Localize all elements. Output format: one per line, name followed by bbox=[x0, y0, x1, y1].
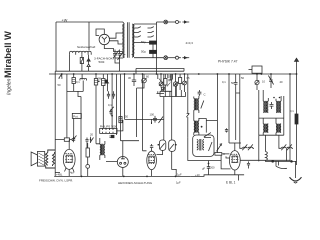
wire switch leg to EBL bottom bbox=[188, 137, 221, 160]
svg-text:50µ: 50µ bbox=[141, 40, 146, 44]
wire right verticals bbox=[290, 74, 297, 165]
svg-text:50: 50 bbox=[58, 83, 61, 87]
svg-text:1µF: 1µF bbox=[177, 173, 182, 177]
wire can2 bottom to bus bbox=[157, 150, 177, 176]
black cap blob bbox=[110, 135, 115, 138]
wire left vertical from +W corner down bbox=[55, 22, 57, 71]
osc trimmer 3 bbox=[183, 74, 187, 92]
knot extra drops bbox=[157, 74, 173, 94]
wire x151.5 from y119 down bbox=[151, 122, 153, 124]
switch mains arrow bbox=[87, 55, 90, 71]
svg-text:HEXODEN-SCHALTUNG: HEXODEN-SCHALTUNG bbox=[118, 181, 153, 185]
svg-text:30: 30 bbox=[128, 76, 131, 80]
svg-text:50µ: 50µ bbox=[141, 50, 146, 54]
wire x229 vertical to tube bbox=[228, 74, 230, 143]
osc transformer upper pair bbox=[194, 96, 204, 121]
trimmer arrow right of box bbox=[217, 144, 222, 152]
comps right of grid bbox=[85, 137, 93, 148]
junction dot x98.8 bbox=[98, 81, 100, 83]
svg-text:1µF: 1µF bbox=[176, 181, 181, 185]
output transformer winding 1 bbox=[46, 150, 56, 168]
coil pair with arrows right of EBL top bbox=[241, 144, 254, 150]
svg-text:4×0,3: 4×0,3 bbox=[186, 41, 194, 45]
svg-text:+10: +10 bbox=[195, 173, 200, 177]
svg-text:40: 40 bbox=[280, 80, 283, 84]
switch diagonal below osc bbox=[204, 133, 211, 138]
trimmer ant x257 bbox=[255, 74, 259, 90]
osc transformer lower pair bbox=[194, 118, 207, 135]
filter cap C50a bbox=[150, 41, 157, 44]
wire x206.3 down bbox=[205, 118, 207, 132]
wire rectifier anode loop bbox=[96, 29, 104, 36]
junction dots bottom bbox=[81, 160, 293, 177]
resistor R4 bbox=[102, 74, 105, 128]
wave switch label + box bbox=[100, 125, 118, 134]
knot tiny marks bbox=[159, 79, 172, 87]
main bus y74 bbox=[49, 73, 297, 75]
junction dots IF top bbox=[273, 97, 280, 99]
wire a/b stub bbox=[59, 74, 62, 78]
svg-text:+200: +200 bbox=[209, 166, 216, 170]
output transformer winding 2 bbox=[45, 152, 55, 166]
wire bottom mid step bbox=[190, 175, 233, 177]
wire osc sub-rail y91.3 bbox=[160, 91, 171, 96]
caps between IF coils bbox=[270, 102, 274, 109]
svg-text:25: 25 bbox=[168, 75, 171, 79]
varcap ant x271 bbox=[268, 74, 273, 88]
tube V2 triode bbox=[106, 141, 128, 177]
cap x226 bbox=[225, 128, 228, 132]
osc coil shading bbox=[195, 99, 199, 132]
junction dot bus left bbox=[61, 73, 63, 75]
osc trimmer 2 (dark) bbox=[173, 74, 177, 97]
svg-text:PHYSIK 7.47: PHYSIK 7.47 bbox=[218, 60, 238, 64]
switch right bottom bbox=[276, 161, 287, 168]
power transformer T1 primary bbox=[123, 24, 125, 58]
tube V3 oval bbox=[143, 144, 157, 176]
IF transformer upper pair right bbox=[263, 90, 281, 113]
wire EBL top left bbox=[229, 142, 241, 144]
bottom bus left bbox=[54, 175, 190, 177]
wire mid horizontal y119.4 bbox=[125, 118, 164, 120]
svg-text:Mirabell W: Mirabell W bbox=[2, 31, 13, 78]
wire pot down bbox=[73, 118, 75, 138]
capacitor dark blob x106 bbox=[105, 80, 108, 84]
long verticals mid-left bbox=[108, 74, 172, 151]
svg-text:20: 20 bbox=[90, 133, 93, 137]
svg-text:60: 60 bbox=[146, 75, 149, 79]
wire corner at 136 down bbox=[135, 69, 137, 75]
scattered value labels bbox=[58, 75, 295, 137]
volume pot box bbox=[72, 113, 81, 118]
caps row mid-left bbox=[107, 91, 115, 115]
svg-text:E BL 1: E BL 1 bbox=[226, 180, 236, 184]
resistor R3 bbox=[94, 74, 100, 144]
resistor R6 dark right bbox=[295, 114, 298, 124]
bottom bus stub upper bbox=[55, 171, 60, 173]
arrow through cap bbox=[159, 117, 164, 124]
wire IF bottom y135.2 bbox=[259, 134, 284, 136]
ground symbol bbox=[290, 161, 302, 183]
antenna coupling box bbox=[249, 66, 263, 73]
transformer core bbox=[128, 22, 130, 58]
svg-text:0,1: 0,1 bbox=[222, 80, 226, 84]
tube V1 EBL bbox=[229, 143, 290, 175]
resistor right of tube bbox=[86, 143, 89, 165]
capacitor osc top bbox=[198, 90, 202, 96]
wire box to V2 feed bbox=[117, 120, 123, 131]
cap on y119.4 bbox=[153, 116, 157, 123]
wire shieldbox to EBL with resistor bbox=[215, 153, 231, 169]
svg-text:+4BL: +4BL bbox=[56, 172, 63, 176]
IF can 2 bbox=[169, 140, 177, 151]
coil pair with arrows far right bbox=[280, 144, 293, 150]
wire IF mid rail y118.1 bbox=[259, 117, 284, 119]
rectifier tube V5 bbox=[99, 34, 109, 44]
svg-text:0,1: 0,1 bbox=[290, 109, 294, 113]
svg-text:500i: 500i bbox=[99, 60, 105, 64]
shield box with coils bbox=[193, 135, 214, 156]
IF coil shading bbox=[264, 102, 281, 133]
wire step x239.8 bbox=[236, 74, 241, 148]
svg-text:C: C bbox=[204, 93, 206, 97]
svg-text:50: 50 bbox=[241, 76, 244, 80]
wire x66.9 vertical bbox=[66, 74, 68, 138]
svg-text:50: 50 bbox=[125, 115, 128, 119]
transformer secondary taps bbox=[134, 24, 163, 58]
IF transformer lower pair right bbox=[263, 118, 281, 135]
dial lamp line lower bbox=[164, 56, 189, 60]
capacitor C5 x134 bbox=[132, 74, 136, 86]
wire caps vertical bbox=[153, 22, 157, 74]
svg-text:0,1: 0,1 bbox=[108, 103, 112, 107]
bottom labels bbox=[39, 166, 236, 186]
interstage transformer bbox=[100, 138, 105, 160]
junction dots on bus bbox=[73, 73, 298, 75]
power transformer T1 secondary bbox=[132, 24, 134, 58]
oscillator knot: trimmer 1 bbox=[159, 74, 163, 88]
switch contact x187.8 bbox=[186, 113, 189, 117]
wire primary ends bbox=[115, 22, 124, 58]
wire selector feed from rail bbox=[88, 22, 90, 51]
IF can 1 bbox=[158, 140, 166, 150]
junction dot cap bbox=[208, 163, 210, 165]
svg-text:100: 100 bbox=[150, 113, 155, 117]
svg-text:50: 50 bbox=[231, 81, 235, 85]
grid cap output bbox=[72, 136, 77, 143]
svg-text:Netzanschluß: Netzanschluß bbox=[77, 45, 96, 49]
wire EBL left pin bbox=[226, 156, 229, 158]
wire osc sub-rail y96.5 bbox=[160, 84, 186, 97]
output tube V4 bbox=[63, 140, 75, 177]
resistor on x120.5 bbox=[119, 117, 122, 123]
fuse F1 bbox=[80, 55, 83, 71]
title Ingelen Mirabell W (rotated left margin) bbox=[2, 31, 13, 95]
mains voltage selector coil row bbox=[70, 51, 92, 55]
bottom line right bbox=[265, 160, 297, 162]
svg-text:a b: a b bbox=[58, 76, 63, 80]
osc coil box 1 bbox=[164, 74, 167, 97]
HT rail y68.5 bbox=[136, 69, 184, 72]
wire link R1R2 bbox=[67, 90, 83, 92]
wire x187.8 vertical bbox=[187, 74, 189, 137]
wire IF verticals sides bbox=[259, 90, 284, 135]
filter cap C50b bbox=[150, 50, 157, 53]
wire x80.2 down bbox=[78, 91, 81, 176]
cap at x236 bbox=[234, 74, 238, 87]
trimmer cap circle with arrow x144 bbox=[137, 74, 147, 88]
wire x217.4 vertical bbox=[206, 74, 217, 153]
grid resistor output tube bbox=[55, 138, 72, 141]
svg-text:05: 05 bbox=[187, 76, 190, 80]
wire mid horizontal y140.7 bbox=[121, 140, 140, 142]
coil L2 bbox=[80, 74, 87, 91]
dial lamp line top bbox=[157, 20, 190, 24]
winding shading bbox=[124, 24, 134, 57]
svg-text:0,5: 0,5 bbox=[106, 81, 110, 85]
svg-text:Pot.: Pot. bbox=[73, 115, 79, 119]
wire top HT rail +W bbox=[56, 21, 123, 23]
svg-text:+W: +W bbox=[62, 18, 68, 22]
switch diagonal mid bbox=[110, 74, 114, 128]
HT rail y71.2 bbox=[55, 70, 184, 72]
wire selector left leg to bus bbox=[69, 55, 71, 71]
speaker LS bbox=[31, 152, 45, 167]
spring coil mid-right bbox=[266, 135, 287, 161]
svg-text:0,1: 0,1 bbox=[76, 80, 80, 84]
wire rectifier to transformer taps bbox=[104, 33, 123, 52]
cap on y161 rail bbox=[247, 161, 250, 168]
svg-text:4µF: 4µF bbox=[70, 171, 75, 175]
cap below EBL left bbox=[207, 161, 210, 175]
svg-text:FREISCHW. DYN. LSPR.: FREISCHW. DYN. LSPR. bbox=[39, 179, 73, 183]
label 3-FACH-NOKI 500i bbox=[94, 56, 114, 64]
wire left vertical lower to bottom bus bbox=[54, 71, 56, 176]
wire IF block down legs bbox=[259, 135, 280, 161]
osc coil box 2 bbox=[179, 74, 182, 90]
svg-text:Ingelen: Ingelen bbox=[7, 78, 13, 95]
svg-text:µF: µF bbox=[202, 166, 206, 170]
antenna A bbox=[295, 58, 299, 74]
interstage transformer shading bbox=[101, 145, 104, 155]
small circle below resistor bbox=[86, 165, 90, 169]
bottom bus mid bbox=[233, 175, 244, 181]
tuning gang variable caps left of transformer bbox=[113, 50, 123, 72]
svg-text:10: 10 bbox=[262, 80, 265, 84]
osc circle small bbox=[161, 87, 165, 91]
resistor R1 bbox=[72, 74, 75, 91]
